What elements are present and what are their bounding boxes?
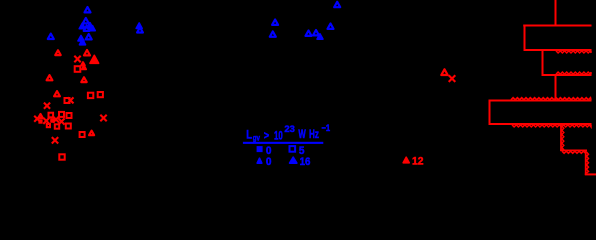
svg-text:−1: −1	[322, 122, 331, 133]
svg-text:16: 16	[300, 156, 311, 168]
legend row 1: filled square 0, open square 5	[257, 145, 305, 157]
svg-text:L: L	[246, 128, 252, 142]
legend heading L_gv > 10^23 W Hz^-1	[246, 122, 330, 143]
blue scatter markers	[48, 2, 340, 45]
svg-text:>: >	[264, 130, 269, 142]
svg-text:W: W	[298, 128, 305, 141]
svg-text:gv: gv	[253, 133, 260, 143]
svg-text:0: 0	[266, 156, 272, 168]
svg-text:Hz: Hz	[309, 128, 319, 141]
histogram solid outline	[489, 0, 592, 125]
red point label 12	[412, 155, 424, 167]
svg-text:10: 10	[274, 128, 283, 142]
legend rule	[243, 142, 323, 144]
svg-text:12: 12	[412, 155, 424, 167]
histogram hatched (toothed) segments	[511, 51, 596, 175]
red scatter markers	[34, 50, 455, 163]
svg-text:23: 23	[284, 123, 294, 134]
legend row 2: small filled triangle 0, large filled triangle 16	[257, 156, 310, 168]
